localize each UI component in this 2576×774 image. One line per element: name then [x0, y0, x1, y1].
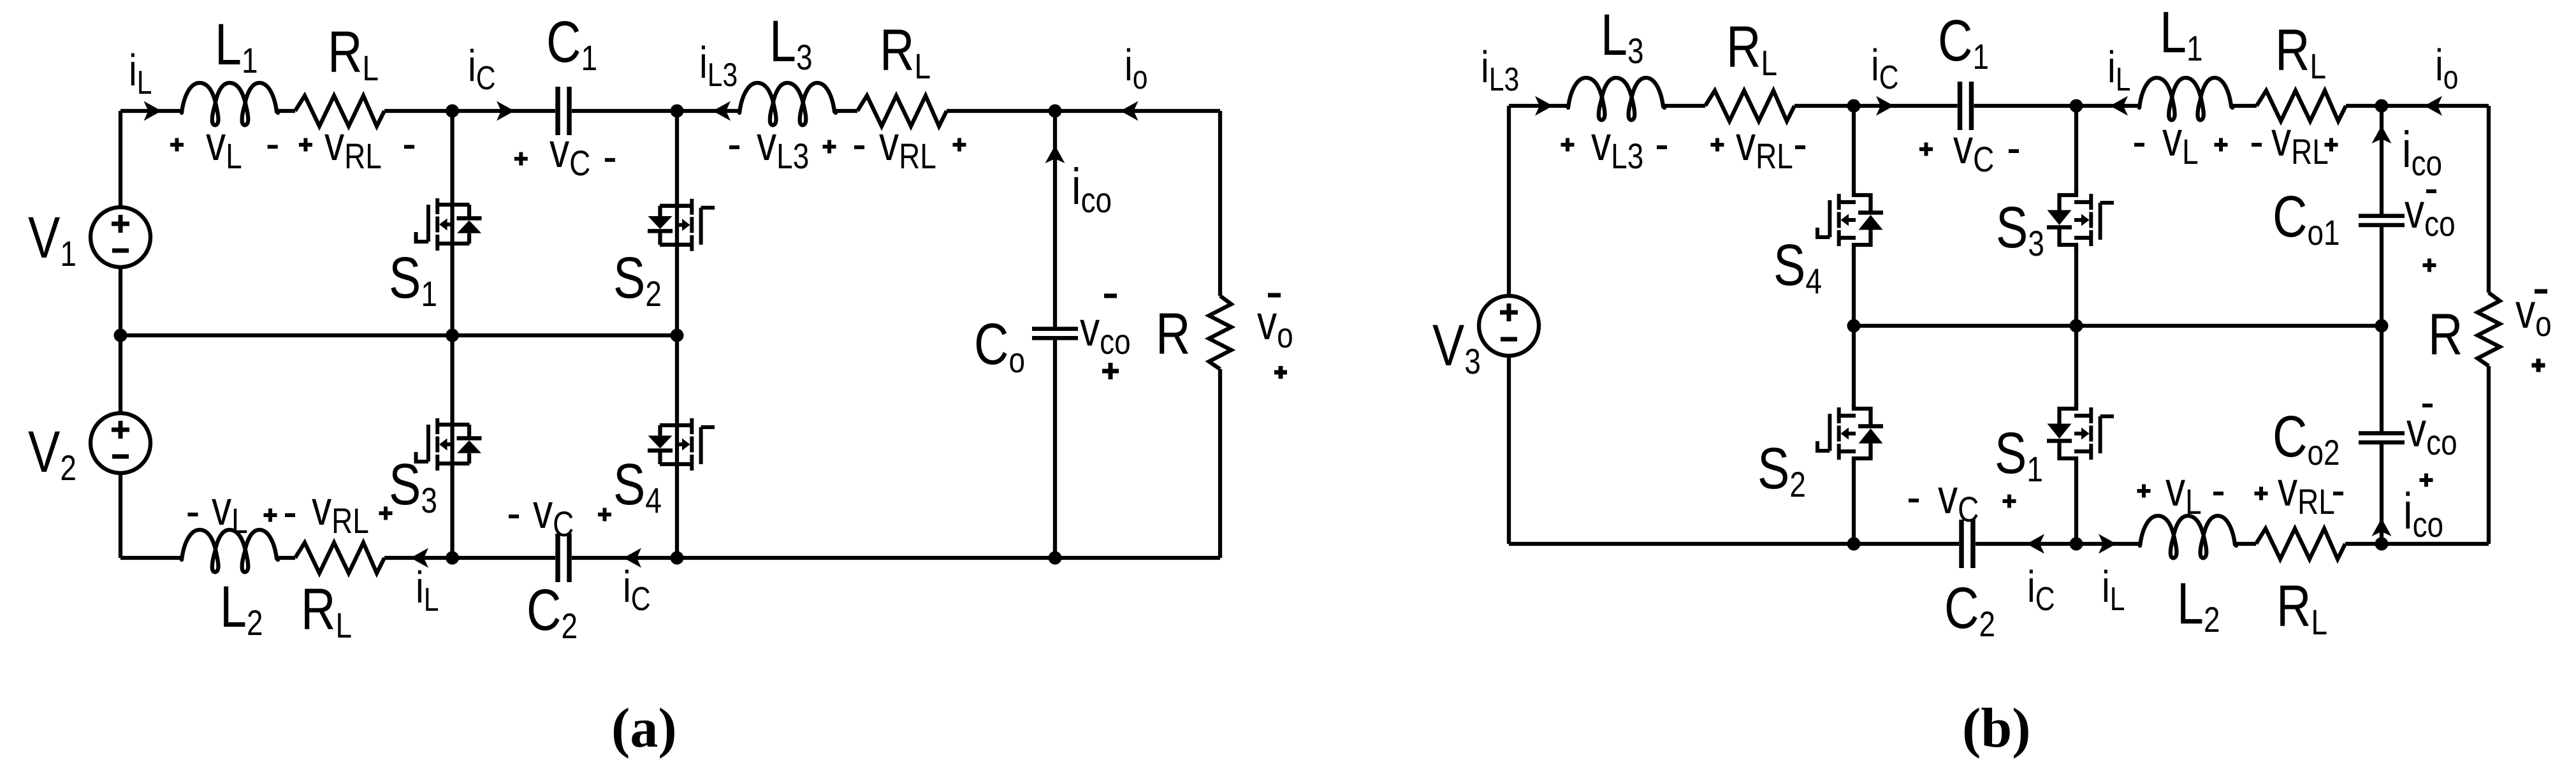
svg-text:R: R — [2428, 302, 2463, 367]
svg-text:(b): (b) — [1962, 697, 2031, 759]
svg-text:R: R — [1156, 301, 1190, 367]
svg-text:(a): (a) — [611, 697, 677, 759]
